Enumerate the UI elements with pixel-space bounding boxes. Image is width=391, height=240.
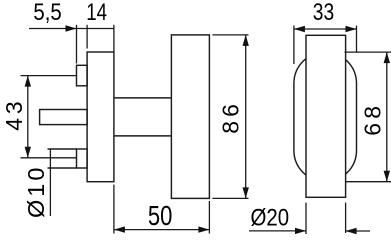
ext line O20 left	[305, 203, 307, 234]
bottom cylinder top edge	[48, 148, 77, 150]
svg-text:50: 50	[148, 201, 172, 232]
ext line rose front	[113, 25, 115, 52]
leader O10 / cylinder end	[49, 149, 51, 216]
svg-text:Ø10: Ø10	[23, 165, 49, 218]
ext line 33 right	[356, 26, 358, 53]
svg-text:86: 86	[218, 100, 244, 134]
dim line 5,5 / 14	[29, 28, 114, 30]
arrow 43 up	[25, 76, 31, 87]
ext line 43 bottom	[21, 157, 77, 159]
ext line 68 top	[345, 51, 391, 53]
knob head (side view)	[171, 35, 209, 199]
arrow 50 left	[114, 226, 125, 232]
dim line 50	[114, 229, 209, 231]
knob neck top	[114, 97, 171, 99]
dim line 86	[245, 35, 247, 199]
arrow 43 down	[25, 147, 31, 158]
knob head (front view)	[306, 35, 346, 197]
svg-text:5,5: 5,5	[33, 0, 61, 25]
arrow 68 up	[384, 52, 390, 63]
arrow 68 down	[384, 171, 390, 182]
ext line rose back	[86, 25, 88, 49]
ext line 86 bottom	[212, 197, 248, 199]
rose stadium (front view)	[294, 52, 357, 182]
dim line O20 right	[346, 230, 370, 232]
dim line 33	[294, 28, 357, 30]
ext line 86 top	[212, 34, 248, 36]
ext line 50 left	[113, 185, 115, 234]
svg-text:43: 43	[1, 98, 27, 131]
arrow 86 down	[243, 187, 249, 198]
arrow O20 right-pointing	[295, 228, 306, 234]
arrow 5,5	[66, 25, 77, 31]
ext line O20 right	[345, 203, 347, 233]
knob neck bottom	[114, 135, 171, 137]
bottom fixing hub	[77, 149, 88, 168]
svg-text:14: 14	[86, 0, 107, 26]
bottom cylinder bottom edge	[48, 167, 77, 169]
dim line 43	[27, 76, 29, 158]
ext line 43 top	[21, 75, 77, 77]
dim line O20 left	[249, 230, 306, 232]
arrow 86 up	[243, 35, 249, 46]
ext line 33 left	[293, 26, 295, 65]
svg-text:33: 33	[313, 0, 334, 25]
svg-text:Ø20: Ø20	[251, 204, 290, 231]
dim line 68	[386, 52, 388, 182]
arrow 50 right	[198, 226, 209, 232]
ext line 50 right	[208, 201, 210, 234]
rose plate (side view)	[87, 52, 114, 182]
spindle	[40, 110, 88, 125]
ext line 68 bottom	[346, 181, 391, 183]
arrow 33 left	[294, 26, 305, 32]
ext line hub back	[76, 25, 78, 64]
top fixing hub	[77, 65, 88, 86]
svg-text:68: 68	[359, 102, 385, 136]
arrow O20 left-pointing	[346, 228, 357, 234]
arrow 33 right	[346, 26, 357, 32]
